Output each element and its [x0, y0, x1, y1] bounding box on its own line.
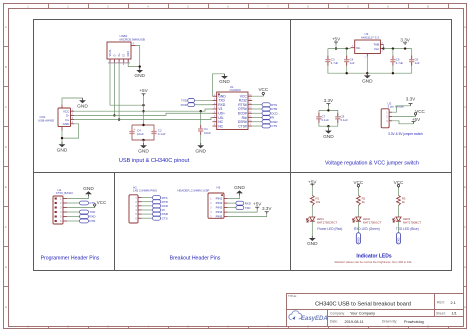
wire USB1 D- to rail — [113, 62, 115, 115]
wire input cap loop — [328, 49, 367, 74]
wire U1 VCC pin — [252, 95, 263, 97]
svg-text:VCC: VCC — [354, 180, 364, 185]
svg-text:GND: GND — [307, 241, 318, 247]
wire U3 GND down — [366, 57, 368, 74]
wire USB1 GND pin — [128, 62, 140, 67]
svg-text:Resistor values can be control: Resistor values can be control the brigh… — [335, 260, 412, 264]
svg-text:3.3V & 5V jumper switch: 3.3V & 5V jumper switch — [388, 132, 423, 136]
svg-text:3.3V: 3.3V — [324, 98, 334, 103]
resistor R3 — [397, 195, 401, 205]
junction USB1 D+ rail — [118, 118, 120, 120]
port DSR (H2) — [152, 212, 160, 216]
svg-text:TXD LED (Blue): TXD LED (Blue) — [396, 227, 419, 231]
ground GND above U1 — [224, 74, 226, 76]
svg-text:TITLE:: TITLE: — [288, 294, 297, 298]
wire LED1 to GND — [311, 221, 313, 236]
port DTR (H1) — [80, 219, 89, 223]
ground GND above H1 — [88, 194, 90, 196]
header H3 body — [208, 193, 224, 218]
svg-text:CH340C USB to Serial breakout: CH340C USB to Serial breakout board — [315, 301, 411, 307]
LED LED2 — [356, 217, 361, 221]
port DTR — [262, 107, 270, 111]
svg-text:REV:: REV: — [437, 301, 445, 305]
port TXD (H1) — [80, 210, 89, 214]
wire H1 pin2 to CTS — [67, 202, 80, 204]
capacitor C1 symbol — [200, 125, 202, 129]
header H3 pin1 mark — [221, 194, 223, 196]
connector CN1 pin stubs — [71, 109, 75, 124]
svg-text:0.1uF: 0.1uF — [158, 132, 166, 136]
wire R1 to LED1 — [311, 206, 313, 217]
svg-text:HEADER_2.54MM 1X5P: HEADER_2.54MM 1X5P — [177, 189, 209, 193]
wire H2 pin3 to DCD — [142, 205, 153, 207]
connector CN1 bottom stub — [61, 127, 63, 131]
wire LED2 to port — [357, 221, 359, 233]
capacitor C8 symbol — [337, 113, 339, 117]
wire decoupling to GND — [327, 126, 329, 128]
wire CN1 bottom pin down — [61, 131, 63, 143]
svg-text:0.1uF: 0.1uF — [322, 118, 330, 122]
svg-text:RXD: RXD — [89, 215, 95, 219]
svg-text:3.3V: 3.3V — [262, 206, 272, 211]
svg-text:VCC: VCC — [394, 180, 404, 185]
junction cap-pair top — [142, 124, 144, 126]
svg-text:GND: GND — [63, 122, 71, 126]
power flag VCC (jumper) — [415, 115, 417, 117]
svg-text:USB input & CH340C pinout: USB input & CH340C pinout — [119, 158, 190, 164]
svg-text:CTS: CTS — [162, 216, 168, 220]
svg-text:GND: GND — [77, 103, 88, 109]
power flag 3.3V (regulator) — [404, 43, 406, 45]
wire TXD port to U1 — [195, 99, 213, 101]
wire H2 pin1 to RTS — [142, 197, 153, 199]
port RI — [262, 116, 270, 120]
svg-text:B: B — [5, 65, 7, 69]
resistor R1 — [310, 195, 314, 205]
section divider vertical bottom-left — [114, 173, 116, 271]
svg-text:10uF: 10uF — [137, 132, 144, 136]
svg-text:GND: GND — [134, 73, 145, 79]
header H2 pins — [135, 198, 141, 221]
wire +5V to input rail — [335, 44, 337, 48]
svg-text:+5V: +5V — [253, 201, 262, 206]
svg-text:GND: GND — [323, 134, 334, 140]
svg-text:A: A — [464, 25, 466, 29]
svg-text:C: C — [464, 105, 466, 109]
svg-text:+: + — [134, 127, 136, 131]
svg-text:GND: GND — [219, 79, 230, 85]
wire USB1 D+ to rail — [118, 62, 120, 120]
capacitor C7 symbol — [318, 113, 320, 117]
wire U2 pin2 to VCC — [392, 115, 415, 117]
IC U1 CH340C body — [217, 92, 248, 130]
resistor R2 — [357, 195, 361, 205]
power flag 3.3V at H3 — [266, 212, 268, 214]
wire R2 top — [357, 188, 359, 195]
svg-text:Company:: Company: — [330, 311, 345, 315]
header U2 body — [381, 109, 389, 128]
svg-text:NC: NC — [218, 124, 223, 128]
connector CN1 shield stub top — [61, 105, 63, 109]
regulator U3 body — [355, 40, 381, 54]
ground GND at CN1 shield — [82, 98, 84, 100]
wire R3 top — [398, 188, 400, 195]
capacitor C4b symbol — [346, 56, 348, 60]
wire regulator output rail — [384, 48, 412, 50]
wire regulator input rail — [328, 48, 351, 50]
svg-text:CTS: CTS — [89, 201, 95, 205]
svg-text:PIN2: PIN2 — [216, 201, 223, 205]
wire cap-pair to GND — [143, 140, 145, 143]
power flag VCC at H1 — [94, 206, 96, 208]
junction C4b bottom — [346, 72, 348, 74]
connector USB1 shield pin stub — [131, 45, 136, 47]
svg-text:D-: D- — [113, 54, 116, 57]
svg-text:10uF: 10uF — [204, 131, 211, 135]
wire C1 to GND — [200, 135, 202, 144]
svg-text:E: E — [464, 185, 466, 189]
connector USB1 body — [107, 42, 131, 59]
junction +5V on VCC rail — [142, 110, 144, 112]
port RXD (vertical) — [356, 233, 360, 244]
port TXD (vertical) — [396, 233, 400, 244]
wire U2 pin1 to 3.3V — [392, 106, 410, 112]
svg-text:VCC: VCC — [97, 200, 107, 205]
junction C4b tap — [346, 47, 348, 49]
wire H1 pin6 to DTR — [67, 220, 80, 222]
wire U1 DCD to port — [252, 112, 262, 114]
svg-text:RXD: RXD — [181, 103, 188, 107]
ground GND under cap pair — [143, 143, 145, 145]
wire 3.3V to loop — [327, 106, 329, 111]
svg-text:TXD: TXD — [397, 238, 401, 244]
svg-text:RXD: RXD — [357, 237, 361, 243]
svg-text:1/1: 1/1 — [452, 312, 457, 316]
wire H1 pin3 to VCC — [67, 207, 95, 209]
svg-text:GND: GND — [83, 186, 94, 192]
port RXD (H3) — [236, 201, 244, 205]
wire +5V vertical — [143, 96, 145, 125]
capacitor C6 symbol — [411, 56, 413, 60]
wire U1 CTS to port — [252, 125, 262, 127]
svg-text:ID: ID — [123, 54, 126, 57]
wire U1 RTS to port — [252, 104, 262, 106]
wire C1 from rail — [200, 111, 202, 125]
wire U1 DSR to port — [252, 121, 262, 123]
connector CN1 pin names — [63, 109, 71, 126]
power flag +5V (USB section) — [143, 94, 145, 96]
junction +5V input rail — [335, 47, 337, 49]
svg-text:A: A — [5, 25, 7, 29]
svg-text:Voltage regulation & VCC jumpe: Voltage regulation & VCC jumper switch — [325, 160, 419, 166]
junction U3 out — [382, 47, 384, 49]
wire H1 pin4 to TXD — [67, 211, 80, 213]
IC U1 pin numbers — [214, 94, 252, 126]
svg-text:CTS: CTS — [271, 124, 277, 128]
svg-text:+5V: +5V — [412, 117, 421, 122]
svg-text:GND: GND — [195, 148, 206, 154]
svg-text:RXD: RXD — [245, 201, 251, 205]
section divider horizontal — [34, 172, 452, 174]
svg-text:1uF: 1uF — [350, 61, 355, 65]
wire H1 pin1 to GND — [67, 196, 89, 198]
svg-text:4.7uF: 4.7uF — [331, 61, 339, 65]
svg-text:CTS#: CTS# — [238, 124, 247, 128]
junction CN1 ground node — [61, 137, 63, 139]
LED LED3 — [396, 217, 401, 221]
port DCD (H2) — [152, 204, 160, 208]
wire R1 top — [311, 186, 313, 195]
svg-text:G: G — [5, 265, 7, 269]
svg-text:+5V: +5V — [308, 180, 317, 185]
svg-text:MICRO5.9MMUSB: MICRO5.9MMUSB — [120, 38, 145, 42]
wire U3 TAB join — [383, 45, 385, 49]
svg-text:H: H — [5, 305, 7, 309]
power flag +5V at R1 — [311, 184, 313, 186]
capacitor C5 symbol — [392, 56, 394, 60]
connector CN1 body — [58, 108, 71, 127]
node D+ rail — [74, 118, 213, 120]
power flag 3.3V (decoupling) — [327, 104, 329, 106]
power flag +5V (regulator) — [335, 42, 337, 44]
svg-text:NHT1750CRCT: NHT1750CRCT — [317, 220, 338, 224]
svg-text:3.3V: 3.3V — [400, 37, 410, 42]
junction C5 tap — [392, 47, 394, 49]
node D- rail — [74, 113, 213, 115]
wire H2 pin5 to DSR — [142, 213, 153, 215]
power flag VCC at R2 — [357, 187, 359, 189]
regulator U3 Out pin — [380, 48, 383, 50]
wire U1 RI to port — [252, 117, 262, 119]
IC U1 left pins — [213, 94, 227, 128]
section divider vertical center — [290, 20, 292, 271]
capacitor C2 plates — [151, 131, 156, 133]
wire H3 pin3 to TXD — [228, 207, 236, 209]
header H1 pins — [55, 198, 67, 224]
power flag VCC at U1 — [262, 94, 264, 96]
wire H3 pin5 to 3.3V — [228, 214, 267, 217]
connector USB1 pin names — [109, 49, 130, 56]
svg-text:EasyEDA: EasyEDA — [301, 316, 328, 322]
svg-text:D: D — [464, 145, 466, 149]
svg-text:PIN3: PIN3 — [216, 206, 223, 210]
junction decoupling bottom — [327, 125, 329, 127]
ground GND under decoupling — [327, 128, 329, 130]
power flag VCC at R3 — [398, 187, 400, 189]
svg-text:1uF: 1uF — [415, 61, 420, 65]
svg-text:VCC: VCC — [415, 109, 425, 114]
port RTS — [262, 103, 270, 107]
svg-text:USB-AWND: USB-AWND — [38, 119, 55, 123]
port CTS — [262, 124, 270, 128]
svg-text:GND: GND — [362, 79, 373, 85]
svg-text:PIN4: PIN4 — [216, 210, 223, 214]
svg-text:PIN1: PIN1 — [216, 197, 223, 201]
svg-text:H3: H3 — [217, 185, 221, 189]
wire H3 pin4 to +5V — [228, 209, 258, 212]
junction regulator ground — [366, 72, 368, 74]
svg-text:VBUS: VBUS — [109, 49, 112, 56]
port TXD (H3) — [236, 206, 244, 210]
port DTR (H2) — [152, 200, 160, 204]
wire R3 to LED3 — [398, 206, 400, 217]
wire output loop to ground rail — [367, 72, 393, 74]
svg-text:1X8 2.54MM PINS: 1X8 2.54MM PINS — [133, 189, 157, 193]
regulator U3 TAB pin — [380, 44, 383, 46]
IC U1 right pins — [238, 94, 253, 128]
svg-text:NHT1750GCT: NHT1750GCT — [363, 220, 382, 224]
svg-text:Breakout Header Pins: Breakout Header Pins — [170, 256, 221, 262]
port DCD — [262, 111, 270, 115]
wire U2 pin3 to +5V — [392, 121, 413, 124]
header H3 pins — [210, 197, 227, 219]
svg-text:+5V: +5V — [139, 88, 148, 93]
junction 3.3V tap — [404, 47, 406, 49]
port RI (H2) — [152, 208, 160, 212]
power flag +5V (jumper) — [413, 122, 415, 124]
wire H2 pin2 to DTR — [142, 201, 153, 203]
svg-text:+5V: +5V — [332, 37, 341, 42]
header H2 body — [129, 195, 138, 223]
junction C1 tap on rail — [200, 110, 202, 112]
wire cap-pair loop — [132, 125, 154, 140]
svg-text:TXD: TXD — [89, 210, 95, 214]
power flag 3.3V (jumper) — [410, 104, 412, 106]
junction USB1 shield-GND — [139, 65, 141, 67]
LED LED1 — [310, 217, 315, 221]
svg-text:2019-08-11: 2019-08-11 — [345, 320, 364, 324]
svg-text:PIN5: PIN5 — [216, 215, 223, 219]
wire decoupling loop — [319, 110, 338, 126]
svg-text:4.7uF: 4.7uF — [396, 61, 404, 65]
svg-text:Date:: Date: — [330, 320, 338, 324]
wire output cap loop — [393, 49, 412, 74]
connector USB1 pin numbers — [108, 61, 130, 64]
wire LED3 to port — [398, 221, 400, 233]
capacitor C3 symbol — [327, 56, 329, 60]
svg-text:GND: GND — [234, 185, 245, 191]
svg-text:Power LED (Red): Power LED (Red) — [317, 227, 342, 231]
svg-text:2k: 2k — [362, 200, 366, 204]
ground GND under C1 — [200, 143, 202, 145]
wire USB1 VBUS to +5V line — [110, 62, 144, 105]
junction C5 bottom — [392, 72, 394, 74]
wire R2 to LED2 — [357, 206, 359, 217]
regulator U3 GND pin — [366, 54, 368, 57]
port RXD (H1) — [80, 215, 89, 219]
svg-text:Indicator LEDs: Indicator LEDs — [356, 254, 392, 260]
header H1 body — [53, 196, 63, 224]
capacitor C4 plates — [129, 131, 134, 133]
svg-text:CH340C: CH340C — [230, 88, 242, 92]
svg-text:B: B — [464, 65, 466, 69]
svg-text:0.1uF: 0.1uF — [341, 118, 349, 122]
wire U1 GND pin — [213, 74, 225, 96]
svg-text:D: D — [5, 145, 7, 149]
svg-text:E: E — [5, 185, 7, 189]
ground GND above H3 — [239, 193, 241, 195]
svg-text:FTDI_BASIC: FTDI_BASIC — [56, 191, 74, 195]
svg-text:2.1: 2.1 — [451, 301, 456, 305]
port RTS (H2) — [152, 196, 160, 200]
svg-text:Sheet:: Sheet: — [436, 311, 446, 315]
svg-text:Your Company: Your Company — [350, 312, 375, 316]
connector USB1 pin stubs — [110, 59, 128, 62]
port CTS (H2) — [152, 216, 160, 220]
wire USB1 shield to GND — [136, 46, 140, 68]
junction decoupling top — [327, 109, 329, 111]
wire CN1 GND pin loop — [62, 124, 79, 138]
svg-text:VCC: VCC — [258, 87, 268, 92]
regulator U3 Vin pin — [351, 47, 355, 49]
ground GND under CN1 — [61, 142, 63, 144]
svg-text:Drawn By:: Drawn By: — [382, 320, 397, 324]
node VCC rail (5V) — [74, 109, 213, 111]
ground GND under regulator — [366, 73, 368, 75]
svg-text:A: A — [387, 4, 389, 8]
svg-text:10k: 10k — [316, 200, 321, 204]
header U2 pins — [386, 111, 392, 123]
wire H2 pin4 to RI — [142, 209, 153, 211]
title block grid — [287, 294, 464, 327]
svg-text:Prowhotdog: Prowhotdog — [404, 320, 424, 324]
svg-text:3 pin header: 3 pin header — [388, 105, 405, 109]
svg-text:Programmer Header Pins: Programmer Header Pins — [41, 255, 100, 261]
wire H3 pin2 to RXD — [228, 202, 236, 204]
junction USB1 D- rail — [113, 114, 115, 116]
svg-text:RXD LED (Green): RXD LED (Green) — [354, 227, 380, 231]
svg-text:3.3V: 3.3V — [406, 97, 416, 102]
svg-text:Out: Out — [374, 47, 379, 51]
svg-text:DTR: DTR — [89, 219, 95, 223]
svg-text:H: H — [464, 305, 466, 309]
wire H3 pin1 to GND — [228, 196, 240, 199]
svg-text:Vin: Vin — [356, 46, 361, 50]
section outline box — [34, 20, 452, 271]
port DSR — [262, 120, 270, 124]
EasyEDA logo — [289, 311, 302, 320]
junction VBUS on +5V line — [142, 104, 144, 106]
ground GND under LED1 — [311, 236, 313, 238]
svg-text:D+: D+ — [118, 53, 121, 57]
power flag +5V at H3 — [256, 207, 258, 209]
port CTS (H1) — [80, 201, 89, 205]
svg-text:B: B — [427, 4, 429, 8]
svg-text:GND: GND — [57, 147, 68, 153]
wire CN1 shield to GND — [62, 98, 83, 105]
svg-text:G: G — [464, 265, 466, 269]
junction cap-pair bottom — [142, 139, 144, 141]
wire USB1 ID stub — [123, 62, 125, 65]
svg-text:GND: GND — [138, 148, 149, 154]
wire U1 DTR to port — [252, 108, 262, 110]
svg-text:NHT1750BCT: NHT1750BCT — [403, 220, 421, 224]
wire H1 pin5 to RXD — [67, 216, 80, 218]
svg-text:TXD: TXD — [245, 206, 251, 210]
IC U1 pin1 mark — [218, 93, 220, 95]
wire H2 pin6 to CTS — [142, 217, 153, 219]
svg-text:GND: GND — [127, 51, 130, 57]
ground GND under USB1 — [139, 68, 141, 70]
wire RXD port to U1 — [195, 104, 213, 106]
svg-text:C: C — [5, 105, 7, 109]
wire C4b branch — [346, 49, 348, 74]
svg-text:AMS1117-3.3: AMS1117-3.3 — [361, 36, 379, 40]
